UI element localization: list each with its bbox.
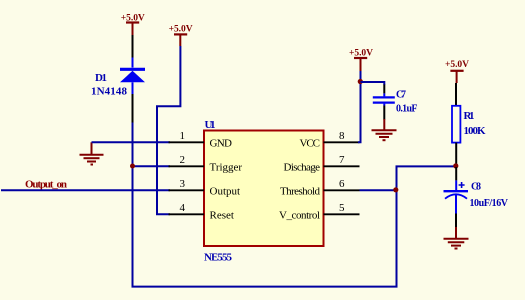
wire (bottom bus horizontal): [132, 286, 398, 288]
power +5.0V (VCC / C7): [349, 48, 373, 71]
svg-text:Trigger: Trigger: [210, 161, 243, 173]
power +5.0V (above D1): [121, 13, 145, 35]
svg-text:7: 7: [339, 154, 345, 166]
resistor R1 pin (top, black): [455, 83, 457, 106]
pin 4 Reset: [169, 202, 234, 221]
resistor R1 pin (bottom, black): [455, 143, 457, 166]
label R1: [464, 110, 475, 122]
svg-text:Output_on: Output_on: [25, 179, 67, 191]
net label Output_on: [25, 179, 67, 191]
wire (threshold pin 6 to right bus): [360, 189, 397, 191]
label NE555: [204, 252, 233, 264]
pin 2 Trigger: [169, 154, 243, 173]
svg-text:0.1uF: 0.1uF: [396, 103, 418, 114]
wire (GND pin 1): [92, 141, 171, 143]
svg-text:C8: C8: [471, 182, 481, 193]
wire (branch to C7): [361, 82, 385, 85]
junction (R1/C8 node): [453, 163, 458, 168]
svg-text:1N4148: 1N4148: [91, 86, 128, 98]
label D1: [95, 72, 107, 84]
label U1: [205, 119, 216, 131]
svg-text:C7: C7: [396, 90, 406, 101]
capacitor C8 (polarized): [444, 182, 469, 199]
label 100K: [464, 125, 486, 137]
svg-text:1: 1: [180, 130, 186, 142]
resistor R1: [452, 106, 460, 143]
svg-text:5: 5: [339, 202, 345, 214]
pin 3 Output: [169, 178, 241, 197]
power +5.0V (to RESET): [169, 25, 193, 46]
svg-text:4: 4: [180, 202, 186, 214]
junction (threshold node): [393, 187, 398, 192]
pin 5 V_control: [279, 202, 360, 221]
diode D1 pin (bottom, black): [132, 94, 134, 123]
capacitor C7 pin (top, black): [383, 85, 385, 94]
svg-text:2: 2: [180, 154, 186, 166]
wire (VCC vertical to pin 8): [358, 71, 361, 142]
capacitor C8 pin (top): [455, 167, 457, 190]
diode D1: [120, 58, 145, 95]
svg-text:8: 8: [339, 130, 345, 142]
wire (right bus vertical to threshold node): [396, 166, 398, 287]
label 0.1uF: [396, 103, 418, 114]
svg-text:V_control: V_control: [279, 209, 320, 221]
svg-text:NE555: NE555: [204, 252, 233, 264]
wire (+5V to reset pin 4): [157, 46, 180, 214]
label C8: [471, 182, 481, 193]
label 1N4148: [91, 86, 128, 98]
svg-text:+5.0V: +5.0V: [169, 25, 193, 35]
power +5.0V (R1 top): [445, 60, 469, 83]
svg-text:6: 6: [339, 178, 345, 190]
svg-text:U1: U1: [205, 119, 216, 131]
wire (output pin 3): [1, 189, 170, 191]
capacitor C8 pin (bottom): [455, 195, 457, 229]
svg-text:D1: D1: [95, 72, 107, 84]
capacitor C7 pin (bottom, black): [383, 106, 385, 120]
svg-text:GND: GND: [210, 137, 233, 149]
op-amp U1 (NE555 IC body): [204, 131, 324, 247]
capacitor C7: [373, 93, 395, 105]
svg-text:10uF/16V: 10uF/16V: [470, 198, 509, 209]
label C7: [396, 90, 406, 101]
svg-text:3: 3: [180, 178, 186, 190]
svg-text:100K: 100K: [464, 125, 486, 137]
ground (under C8): [444, 227, 469, 249]
pin 1 GND: [169, 130, 233, 149]
svg-text:Reset: Reset: [210, 209, 234, 221]
svg-text:Threshold: Threshold: [280, 185, 321, 197]
pin 7 Dischage: [284, 154, 360, 173]
wire (right bus to R1/C8 node): [396, 165, 456, 167]
label 10uF/16V: [470, 198, 509, 209]
ground (left, GND pin): [80, 142, 104, 164]
diode D1 pin (top, black): [132, 35, 134, 58]
ground (under C7): [372, 119, 397, 140]
wire (trigger pin 2): [133, 165, 171, 167]
junction (trigger node): [130, 164, 135, 169]
wire (D1/trigger net vertical down to bottom bus): [132, 123, 134, 288]
pin 8 VCC: [300, 130, 360, 149]
pin 6 Threshold: [280, 178, 360, 197]
svg-text:+5.0V: +5.0V: [445, 60, 469, 70]
svg-text:Dischage: Dischage: [284, 161, 321, 173]
svg-text:VCC: VCC: [300, 137, 321, 149]
svg-text:Output: Output: [210, 185, 241, 197]
junction (VCC / C7 node): [358, 79, 363, 84]
svg-text:R1: R1: [464, 110, 475, 122]
